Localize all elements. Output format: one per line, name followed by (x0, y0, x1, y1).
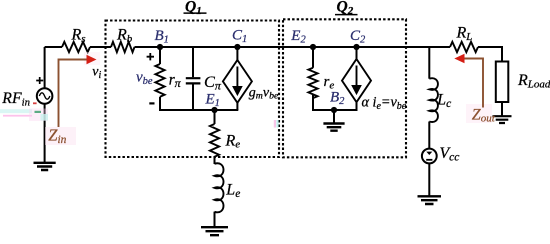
node B1 (157, 44, 163, 50)
wire Q2 bottom rail re to diamond (312, 109, 358, 111)
svg-text:vi: vi (92, 65, 101, 81)
svg-text:C1: C1 (232, 28, 247, 45)
polarity plus of RFin (36, 77, 43, 84)
svg-text:Rb: Rb (116, 27, 133, 45)
svg-text:gmvbe: gmvbe (249, 85, 279, 101)
artifact pink line left (3, 115, 32, 117)
wire source to ground (44, 104, 46, 163)
svg-text:E2: E2 (290, 28, 306, 45)
svg-text:E1: E1 (205, 92, 220, 109)
svg-text:B2: B2 (330, 90, 345, 107)
resistor Rs (62, 42, 90, 52)
svg-text:Q1: Q1 (185, 0, 202, 17)
dependent source Q2 diamond (342, 59, 371, 102)
underline Q2 (335, 14, 358, 16)
polarity marks inside Vcc (426, 152, 432, 155)
wire rpi to bottom (159, 97, 161, 110)
capacitor Cpi plates (186, 78, 201, 83)
wire C2 to diamond top (356, 47, 358, 59)
node C2 (353, 44, 359, 50)
arrowhead vi red (87, 55, 97, 64)
polarity minus inside Vcc (426, 159, 432, 161)
arrowhead inside Q1 diamond (233, 87, 242, 96)
wire Cpi to bottom (192, 84, 194, 110)
artifact cyan patch (41, 114, 49, 121)
svg-text:vbe: vbe (136, 70, 153, 87)
ground under B2 (323, 124, 344, 131)
node E2 (310, 44, 316, 50)
ground under Vcc (418, 196, 442, 204)
artifact pink halo Zin (45, 127, 76, 145)
resistor Re (210, 124, 219, 157)
dependent source Q1 diamond (223, 60, 252, 103)
wire E2 down to re (312, 47, 314, 68)
wire diamond Q2 bottom stem (356, 102, 358, 110)
inductor Le (215, 163, 224, 212)
node E1 (211, 107, 217, 113)
wire source branch upper (44, 47, 46, 88)
impedance arrow Zout (464, 59, 483, 108)
ground under RFin source (34, 163, 56, 170)
wire rail tap down to Cpi (192, 47, 194, 77)
node C1 (234, 44, 240, 50)
svg-text:B1: B1 (155, 28, 169, 45)
svg-text:Rs: Rs (71, 27, 86, 45)
wire top rail from source to Rs (45, 46, 62, 48)
wire RL to RLoad corner (478, 47, 502, 62)
wire re to bottom (312, 95, 314, 110)
svg-text:Lc: Lc (436, 92, 451, 111)
svg-text:Le: Le (225, 181, 240, 200)
svg-text:RFin: RFin (1, 90, 30, 109)
arrow inside Q2 diamond (356, 66, 358, 89)
svg-text:rπ: rπ (169, 72, 182, 91)
source Vcc circle (422, 149, 437, 164)
artifact pink halo Zout (466, 104, 492, 123)
resistor Rb (111, 42, 135, 52)
wire Vcc to ground (428, 163, 430, 195)
underline Q1 (184, 12, 207, 14)
artifact green dash (35, 111, 42, 113)
ground under Le (201, 227, 228, 235)
resistor RL (450, 42, 478, 52)
resistor re (308, 68, 317, 98)
svg-text:RL: RL (456, 25, 473, 43)
svg-text:Cπ: Cπ (204, 72, 222, 93)
resistor RLoad box (496, 62, 509, 103)
arrowhead inside Q2 diamond (352, 86, 361, 95)
transistor Q1 dashed box (106, 21, 280, 158)
impedance arrow Zin and vi (59, 60, 88, 128)
ground under RLoad (493, 116, 512, 123)
artifact pink patch under source (29, 109, 48, 122)
wire Lc to Vcc (428, 122, 430, 149)
wire Re to Le (214, 157, 216, 164)
wire C1 to diamond top (236, 47, 238, 60)
wire B1 down to rpi (159, 47, 161, 64)
wire Q1 bottom rail rpi to diamond (159, 109, 238, 111)
node B2 (331, 107, 337, 113)
wire B2 ground stem (333, 110, 335, 123)
wire E1 down to Re (214, 110, 216, 124)
wire Le to ground (214, 212, 216, 227)
arrowhead Zout red (454, 54, 464, 63)
polarity plus of vbe (147, 53, 154, 60)
polarity minus of RFin red artifact (33, 102, 37, 104)
artifact cyan band left (0, 109, 32, 113)
source RFin circle (37, 88, 53, 104)
svg-text:Re: Re (225, 132, 241, 150)
svg-text:Vcc: Vcc (440, 145, 460, 164)
inductor Lc (429, 78, 438, 122)
wire Rs to Rb (90, 46, 111, 48)
artifact pink halo vi arrowhead (84, 52, 100, 65)
svg-text:re: re (324, 74, 335, 91)
transistor Q2 dashed box (283, 19, 406, 157)
wire top rail B1 to C1 to E2 to C2 to Lc tap to RL (135, 46, 451, 48)
wire RLoad to ground (501, 102, 503, 116)
wire diamond Q1 bottom stem (236, 103, 238, 110)
polarity minus of vbe (149, 102, 154, 104)
resistor rpi (155, 64, 164, 97)
arrow inside Q1 diamond (236, 67, 238, 90)
svg-text:α ie=vbe: α ie=vbe (362, 95, 407, 112)
svg-text:RLoad: RLoad (517, 72, 550, 90)
svg-text:C2: C2 (350, 28, 366, 45)
wire rail tap down to Lc (428, 47, 430, 79)
source RFin sine (39, 93, 50, 99)
artifact pink dashes between boxes (274, 120, 276, 128)
